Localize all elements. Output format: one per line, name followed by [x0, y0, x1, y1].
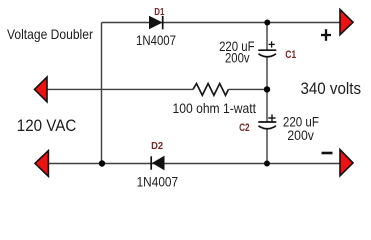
wire right vertical between caps: [266, 57, 268, 121]
terminal arrow AC input mid: [35, 77, 48, 102]
wire right vertical C1 top: [266, 23, 268, 50]
node junction top (C1 to top rail): [264, 20, 270, 26]
node junction bottom left: [99, 160, 105, 166]
resistor R1 zigzag: [193, 84, 229, 96]
svg-text:100 ohm 1-watt: 100 ohm 1-watt: [173, 100, 257, 116]
svg-text:200v: 200v: [287, 128, 314, 143]
wire left vertical: [101, 23, 103, 164]
wire top rail: [102, 22, 341, 24]
terminal arrow output plus: [340, 10, 353, 35]
svg-text:1N4007: 1N4007: [137, 174, 179, 190]
capacitor C2 polarity plus: [268, 114, 275, 121]
minus output sign: [322, 152, 333, 155]
svg-text:120 VAC: 120 VAC: [17, 116, 77, 135]
node junction bottom right (C2 to bottom rail): [264, 161, 270, 167]
capacitor C1: [258, 50, 276, 57]
svg-text:C1: C1: [285, 49, 296, 61]
svg-text:200v: 200v: [225, 51, 250, 66]
svg-text:340 volts: 340 volts: [301, 79, 362, 98]
wire right vertical C2 bottom: [266, 129, 268, 163]
svg-text:D2: D2: [151, 140, 163, 152]
svg-text:D1: D1: [154, 7, 165, 18]
svg-text:220 uF: 220 uF: [283, 114, 319, 130]
svg-text:1N4007: 1N4007: [136, 32, 176, 48]
wire middle right segment: [229, 88, 268, 90]
svg-text:C2: C2: [239, 122, 250, 134]
plus output sign: [321, 29, 331, 41]
diode D2: [151, 156, 164, 169]
terminal arrow output minus: [340, 150, 353, 176]
svg-text:Voltage Doubler: Voltage Doubler: [7, 26, 93, 42]
node junction mid (resistor to caps midpoint): [264, 86, 270, 92]
wire middle left segment: [46, 88, 193, 90]
terminal arrow AC input bottom: [35, 151, 48, 177]
capacitor C2: [258, 122, 276, 129]
diode D1: [150, 16, 163, 29]
wire bottom rail: [47, 163, 340, 165]
capacitor C1 polarity plus: [269, 41, 275, 47]
